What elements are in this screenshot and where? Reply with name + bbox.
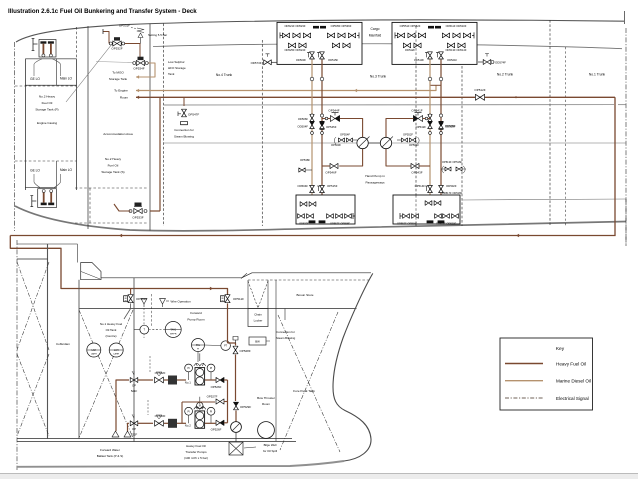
centerline aft [14, 42, 16, 231]
HFO main to engine room [136, 96, 615, 98]
valve OP526F [216, 420, 220, 425]
side tank hatch lower X [17, 354, 49, 436]
instrument T [134, 329, 140, 331]
small valves OP554F group [339, 138, 342, 142]
level gauges [87, 343, 101, 357]
svg-text:Transfer Pumps: Transfer Pumps [185, 450, 207, 454]
svg-text:Hand Pump in: Hand Pump in [365, 174, 385, 178]
svg-text:Storage Tank: Storage Tank [109, 77, 128, 81]
svg-text:Fore Peak Tank: Fore Peak Tank [293, 389, 315, 393]
deck line low right [462, 199, 626, 200]
svg-text:OP534F: OP534F [133, 67, 144, 71]
svg-text:OD521F OD523F: OD521F OD523F [284, 24, 305, 28]
svg-text:PI: PI [187, 410, 190, 413]
svg-text:No.1 Trunk: No.1 Trunk [589, 73, 605, 77]
svg-text:Bilge Well: Bilge Well [264, 443, 277, 447]
relief valve OP531F [137, 28, 144, 44]
svg-text:PI: PI [187, 367, 190, 370]
svg-text:OP546F: OP546F [325, 171, 336, 175]
fore peak hatch X [278, 315, 340, 452]
svg-text:Bosun Store: Bosun Store [296, 293, 313, 297]
svg-text:OD504F: OD504F [297, 125, 308, 129]
svg-text:LAH: LAH [114, 349, 119, 352]
svg-text:OP543F: OP543F [411, 171, 422, 175]
riser valve OD505F [439, 114, 442, 117]
side tank hatch upper X [17, 262, 49, 350]
hand pump loop right [386, 119, 413, 138]
upper deck line fwd [17, 243, 78, 245]
funnels top [34, 59, 61, 76]
valve OP503F [155, 420, 159, 426]
engine glyph bottom [38, 189, 57, 208]
suction line 1 [116, 380, 129, 431]
MDO main to engine room [136, 85, 436, 90]
svg-text:OD574F: OD574F [495, 61, 506, 65]
svg-text:Main LO: Main LO [60, 76, 73, 80]
trunk separators dashed [261, 40, 263, 226]
svg-text:OP541F: OP541F [411, 109, 422, 113]
svg-text:OP: OP [132, 427, 136, 431]
valve OD502F [439, 185, 444, 189]
HFO riser manifold 3 right [321, 60, 323, 222]
discharge line 2 [205, 422, 216, 424]
svg-text:LAHH: LAHH [91, 353, 97, 356]
svg-text:Room: Room [120, 95, 129, 99]
svg-text:OP515F: OP515F [327, 184, 338, 188]
bulkhead dashed through box2 [415, 26, 417, 66]
svg-text:(Centre): (Centre) [105, 334, 116, 338]
HFO left jog down to bow line [10, 236, 227, 296]
steam blowing connection OP547F [183, 97, 185, 106]
hand pump loop left [340, 119, 363, 138]
svg-text:Accommodation Area: Accommodation Area [103, 132, 133, 136]
svg-text:Room: Room [262, 402, 271, 406]
svg-text:OP526F: OP526F [211, 385, 222, 389]
svg-text:OD515F: OD515F [328, 58, 339, 62]
svg-text:for Oil Spill: for Oil Spill [263, 449, 277, 453]
svg-text:OP561F: OP561F [409, 143, 419, 147]
key box [500, 338, 593, 410]
bunkering station piping [103, 32, 140, 60]
valve OD573F [264, 60, 268, 65]
svg-text:Low Sulphur: Low Sulphur [168, 60, 185, 64]
hull sheer line top [16, 20, 624, 42]
svg-text:Key: Key [556, 346, 565, 352]
svg-text:Connection for: Connection for [174, 128, 194, 132]
suction bellmouths [112, 431, 131, 437]
valve OP 521F [130, 378, 134, 383]
main deck line y308 [79, 308, 357, 310]
HFO riser manifold 2 right [440, 60, 442, 222]
svg-text:Ballast Tank (P & S): Ballast Tank (P & S) [97, 454, 124, 458]
svg-text:Forward Water: Forward Water [100, 448, 120, 452]
svg-text:OP552F: OP552F [403, 133, 413, 137]
engine glyph top [39, 40, 56, 58]
lower manifold box stbd [393, 195, 460, 224]
page edge [0, 473, 638, 475]
bulkhead dashed through lower box [415, 195, 417, 224]
valve OD574F [483, 60, 487, 65]
valve OP503F [138, 422, 153, 424]
svg-text:OP512F: OP512F [474, 88, 485, 92]
svg-text:No.2 Heavy: No.2 Heavy [39, 95, 56, 99]
discharge line 1 [205, 379, 216, 381]
valve OP544F [330, 116, 335, 122]
bow outline [333, 273, 373, 461]
svg-text:No.1 Heavy Fuel: No.1 Heavy Fuel [100, 322, 123, 326]
svg-text:Illustration 2.6.1c Fuel Oil B: Illustration 2.6.1c Fuel Oil Bunkering a… [8, 8, 197, 15]
hatch top line [17, 258, 48, 260]
wire operation stands [141, 299, 166, 305]
accommodation dashed sub-box [75, 187, 148, 189]
GE LO / Main LO tank box fwd [25, 58, 76, 60]
svg-text:Locker: Locker [254, 319, 263, 323]
svg-text:Engine Casing: Engine Casing [37, 121, 57, 125]
breakwater [81, 263, 101, 280]
tank bottom lines [17, 438, 292, 440]
valve OP529F [234, 402, 239, 406]
valve OP546F [330, 163, 334, 168]
svg-text:OP526F: OP526F [211, 428, 222, 432]
transfer pump No.2 [197, 402, 203, 408]
svg-text:PI: PI [210, 367, 213, 370]
svg-text:LAHH: LAHH [113, 353, 119, 356]
valve OP502F [138, 379, 153, 381]
svg-text:WFPR: WFPR [170, 333, 177, 335]
svg-text:OP511F: OP511F [233, 297, 244, 301]
svg-text:TAH1: TAH1 [170, 328, 176, 331]
valve OP502F [155, 377, 159, 383]
svg-text:OP527F: OP527F [207, 395, 218, 399]
manifold box No.2 trunk [392, 22, 477, 64]
svg-text:OP545F: OP545F [326, 125, 337, 129]
chain locker [248, 309, 268, 327]
svg-text:Passageways: Passageways [365, 181, 385, 185]
riser valves OD505F [428, 115, 432, 118]
bent suction into tank S [114, 204, 131, 211]
deck line mid [164, 142, 627, 144]
svg-text:HFO Storage: HFO Storage [168, 66, 186, 70]
svg-text:Fuel Oil: Fuel Oil [108, 164, 119, 168]
svg-text:OP557F OP558F: OP557F OP558F [330, 222, 350, 226]
manifold riser tie [430, 84, 441, 86]
valve OP532F [113, 41, 117, 46]
instrument PAL [192, 339, 205, 352]
HFO riser manifold 2 left [429, 60, 431, 222]
svg-text:OP563F: OP563F [331, 143, 341, 147]
HFO main right drop [614, 97, 616, 235]
svg-text:(100 m³/h x 5 bar): (100 m³/h x 5 bar) [184, 456, 208, 460]
svg-text:LAH: LAH [92, 349, 97, 352]
svg-text:OD533F: OD533F [299, 222, 309, 226]
small valves OP552F group [402, 138, 405, 142]
funnels bottom [34, 174, 61, 188]
low sulphur tank wall dashed [163, 24, 165, 227]
svg-text:OD505F: OD505F [445, 125, 456, 129]
dashed engine casing wall upper [76, 27, 78, 59]
svg-text:OD512F: OD512F [405, 48, 416, 52]
svg-text:Fuel Oil: Fuel Oil [42, 101, 53, 105]
svg-text:Connection for: Connection for [276, 330, 295, 334]
svg-text:OD519F OD520F: OD519F OD520F [436, 222, 457, 226]
svg-text:Marine Diesel Oil: Marine Diesel Oil [556, 379, 591, 384]
valve OP543F [411, 163, 415, 168]
svg-text:OP533F: OP533F [132, 216, 143, 220]
valve OP526F [216, 377, 220, 382]
svg-text:Manifold: Manifold [369, 34, 382, 38]
suction line 2 [128, 423, 130, 431]
valve OP541F [413, 116, 418, 122]
svg-text:OP531F: OP531F [119, 24, 130, 28]
svg-text:To MGO: To MGO [112, 71, 124, 75]
stripping pump [231, 422, 242, 433]
dashed tank top aft [15, 160, 77, 162]
HFO riser manifold 3 left [311, 60, 313, 222]
svg-text:GE LO: GE LO [30, 169, 40, 173]
instrument PT [221, 341, 231, 351]
hull bottom shell fwd [17, 461, 344, 467]
transfer pump No.1 [199, 353, 201, 361]
no1 tank hatch X [79, 310, 133, 438]
discharge riser [227, 380, 229, 423]
svg-text:OP538F: OP538F [300, 158, 310, 162]
dashdot right end bottom [625, 199, 627, 246]
svg-text:OP532F: OP532F [111, 47, 122, 51]
svg-text:OP542F: OP542F [416, 125, 427, 129]
riser valves OD506F [310, 115, 314, 118]
svg-text:OD521F: OD521F [447, 58, 458, 62]
svg-text:Heavy Fuel Oil: Heavy Fuel Oil [556, 362, 586, 367]
svg-text:No.2 Trunk: No.2 Trunk [497, 73, 513, 77]
hand pump 2 [380, 137, 391, 148]
hull bottom line [15, 206, 626, 231]
bw steam box [249, 337, 266, 345]
GE LO / Main LO tank box aft [25, 187, 56, 189]
valve OP528F [233, 346, 238, 350]
valve OP538F [299, 168, 302, 172]
svg-text:No.3 Trunk: No.3 Trunk [370, 75, 386, 79]
key heavy fuel oil [505, 363, 543, 365]
svg-text:No.1: No.1 [185, 380, 191, 384]
svg-text:Cofferdam: Cofferdam [56, 342, 70, 346]
bilge well circle [258, 422, 275, 439]
svg-text:PI: PI [210, 410, 213, 413]
svg-text:OP535F OP536F: OP535F OP536F [331, 24, 352, 28]
svg-text:522F: 522F [131, 432, 138, 436]
bosun store dashed deck [248, 279, 370, 281]
valve OD504F [310, 185, 315, 189]
svg-text:Wire Operation: Wire Operation [171, 300, 192, 304]
svg-text:OP547F: OP547F [188, 113, 199, 117]
HFO bottom main [10, 235, 615, 237]
svg-text:OP514F: OP514F [415, 184, 426, 188]
centerline fwd [16, 240, 18, 470]
svg-text:OD511F OD510F: OD511F OD510F [446, 24, 467, 28]
hand pump 1 [357, 137, 368, 148]
instrument TAH [165, 322, 181, 338]
svg-text:Pump Room: Pump Room [187, 318, 205, 322]
gray deck line y105 [164, 104, 615, 106]
svg-text:BW: BW [255, 340, 260, 344]
no1 tank walls [78, 280, 80, 439]
HFO riser tank S [159, 97, 161, 211]
svg-text:OP554F: OP554F [340, 133, 350, 137]
svg-text:OP528F: OP528F [240, 349, 251, 353]
valve OP534F [136, 60, 140, 65]
collision bulkhead dashdot [624, 11, 626, 24]
svg-text:Tank: Tank [168, 72, 175, 76]
svg-text:GE LO: GE LO [30, 77, 40, 81]
riser valve OD508F [428, 114, 431, 117]
svg-text:Storage Tank (P): Storage Tank (P) [35, 108, 58, 112]
svg-text:OP529F: OP529F [240, 405, 251, 409]
lower manifold box port [296, 195, 355, 224]
svg-text:OD502F: OD502F [446, 184, 457, 188]
svg-text:OP: OP [132, 384, 136, 388]
leader line tank P to OP532F [66, 44, 112, 102]
svg-text:Steam Blowing: Steam Blowing [276, 336, 296, 340]
svg-text:Bow Thruster: Bow Thruster [257, 396, 275, 400]
svg-text:Cargo: Cargo [371, 27, 380, 31]
riser valve OP545F [320, 114, 323, 117]
riser flanges [310, 77, 314, 81]
svg-text:OD504F: OD504F [297, 184, 308, 188]
riser valve OD504F [310, 114, 313, 117]
valve OP512F [475, 94, 480, 100]
fore peak bulkhead [275, 280, 277, 441]
svg-text:PAL: PAL [196, 344, 201, 347]
svg-text:Steam Blowing: Steam Blowing [174, 135, 194, 139]
svg-text:OP513F OP516F: OP513F OP516F [442, 160, 462, 164]
deck line 2 [153, 44, 622, 49]
svg-text:OD513F: OD513F [414, 58, 425, 62]
accommodation walls [87, 26, 89, 229]
svg-text:Main LO: Main LO [60, 168, 73, 172]
svg-text:Storage Tank (S): Storage Tank (S) [101, 170, 124, 174]
strainer 2 [164, 422, 168, 424]
svg-text:To Engine: To Engine [114, 88, 128, 92]
svg-text:Chain: Chain [254, 313, 262, 317]
forecastle deck line [101, 273, 371, 278]
manifold box No.3/4 trunk [277, 22, 362, 64]
svg-text:OD573F: OD573F [251, 61, 262, 65]
chain locker hatch V [248, 281, 268, 308]
svg-text:OD513F OD514F: OD513F OD514F [445, 48, 466, 52]
valve OP527F [216, 399, 220, 404]
key electrical signal [505, 397, 543, 399]
svg-text:No.2 Heavy: No.2 Heavy [105, 157, 122, 161]
dashed tank top fwd [15, 85, 77, 87]
cofferdam wall [47, 244, 49, 439]
valve OP514F [428, 185, 433, 189]
svg-text:Electrical Signal: Electrical Signal [556, 396, 589, 401]
svg-text:Heavy Fuel Oil: Heavy Fuel Oil [186, 444, 206, 448]
svg-text:OD503F: OD503F [296, 58, 307, 62]
svg-text:PT: PT [224, 345, 228, 348]
svg-text:Forward: Forward [190, 311, 202, 315]
key marine diesel oil [505, 380, 543, 382]
svg-text:OP544F: OP544F [328, 109, 339, 113]
svg-text:OD517F OD518F: OD517F OD518F [442, 191, 463, 195]
engine room walls [24, 59, 26, 190]
svg-text:Setting 5.5 Bar: Setting 5.5 Bar [148, 33, 167, 37]
strainer 1 [164, 379, 168, 381]
valve OP511F [225, 295, 230, 299]
svg-text:OD525F OD524F: OD525F OD524F [284, 48, 305, 52]
svg-text:521F: 521F [131, 389, 138, 393]
svg-text:OP553F OP554F: OP553F OP554F [397, 222, 417, 226]
svg-text:No.2: No.2 [185, 424, 191, 428]
valve OP533F [134, 208, 138, 213]
oil spill box [229, 442, 243, 455]
bypass line OP527F [182, 401, 215, 403]
svg-text:No.4 Trunk: No.4 Trunk [216, 73, 232, 77]
HFO drop to pump suction [227, 303, 229, 343]
valve OP515F [320, 185, 325, 189]
MGO line [136, 66, 155, 77]
valve OP561F [128, 295, 133, 299]
valve OP 522F [130, 421, 134, 426]
svg-text:M: M [199, 404, 201, 407]
pump connect [368, 142, 380, 144]
svg-text:OD506F: OD506F [298, 117, 309, 121]
svg-text:OP551F OP552F: OP551F OP552F [400, 24, 421, 28]
svg-text:Oil Tank: Oil Tank [106, 328, 117, 332]
